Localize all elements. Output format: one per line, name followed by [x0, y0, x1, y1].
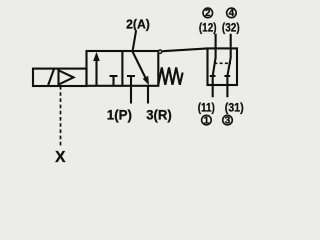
valve divider [121, 51, 123, 86]
svg-text:2(A): 2(A) [126, 17, 150, 32]
solenoid slash [48, 69, 54, 86]
blocked port T (right cell) [127, 76, 135, 86]
switch left contact [210, 34, 216, 98]
svg-text:1(P): 1(P) [107, 108, 132, 123]
switch right contact [224, 34, 230, 98]
manual override dashed line [60, 86, 62, 148]
svg-text:2: 2 [205, 8, 211, 19]
svg-text:4: 4 [229, 8, 235, 19]
svg-text:X: X [55, 149, 66, 166]
blocked port T (left cell) [110, 76, 118, 86]
circled 2 [203, 8, 213, 18]
svg-text:(32): (32) [222, 20, 240, 34]
valve body [87, 51, 159, 86]
flow path diagonal [133, 52, 147, 80]
svg-text:3: 3 [225, 116, 231, 127]
switch box [208, 48, 238, 85]
mechanical node circle [158, 50, 161, 53]
2(A) port line [133, 31, 137, 52]
diagonal arrow head [143, 76, 149, 86]
svg-text:(31): (31) [225, 100, 244, 114]
port 1(P) stub [130, 86, 132, 104]
spring [158, 68, 182, 85]
circled 4 [227, 8, 237, 18]
svg-text:1: 1 [204, 116, 210, 127]
port 3(R) stub [147, 86, 149, 104]
svg-text:(12): (12) [199, 20, 217, 34]
circled 1 [202, 115, 212, 125]
svg-text:(11): (11) [198, 100, 215, 114]
flow arrow head [93, 52, 100, 61]
pilot triangle [59, 70, 74, 84]
mechanical link dashed [214, 62, 231, 64]
solenoid box [33, 69, 87, 86]
circled 3 [223, 115, 233, 125]
flow arrow (left cell) stem [95, 59, 97, 86]
pilot divider (triangle base) [57, 69, 59, 86]
svg-text:3(R): 3(R) [146, 108, 172, 123]
actuator link line [163, 48, 208, 51]
